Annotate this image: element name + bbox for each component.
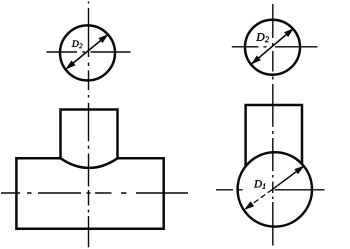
dimension arrow D2 right bbox=[252, 29, 294, 65]
boss rectangle (branch pipe, front view) bbox=[61, 110, 118, 159]
dimension arrow D2 left bbox=[66, 35, 108, 70]
circle D1 (main pipe end, side view) bbox=[238, 152, 312, 226]
label D2 right bbox=[256, 33, 269, 42]
branch pipe rectangle (side view) bbox=[246, 105, 302, 166]
centerline horizontal right top circle bbox=[232, 46, 318, 48]
centerline horizontal big circle bbox=[216, 189, 325, 191]
centerline vertical left figure bbox=[88, 2, 90, 248]
intersection curve boss/body bbox=[61, 158, 118, 168]
centerline horizontal left circle bbox=[47, 51, 131, 53]
centerline vertical right figure bbox=[272, 4, 274, 246]
label D2 left bbox=[72, 41, 83, 49]
circle D2 right (top view of branch pipe, side view) bbox=[245, 20, 300, 75]
label D1 bbox=[254, 180, 265, 188]
circle D2 left (top view of branch pipe, front view) bbox=[60, 25, 115, 80]
dimension arrow D1 bbox=[247, 189, 273, 207]
centerline horizontal body bbox=[1, 192, 188, 194]
body rectangle (main pipe, front view) bbox=[16, 158, 163, 229]
